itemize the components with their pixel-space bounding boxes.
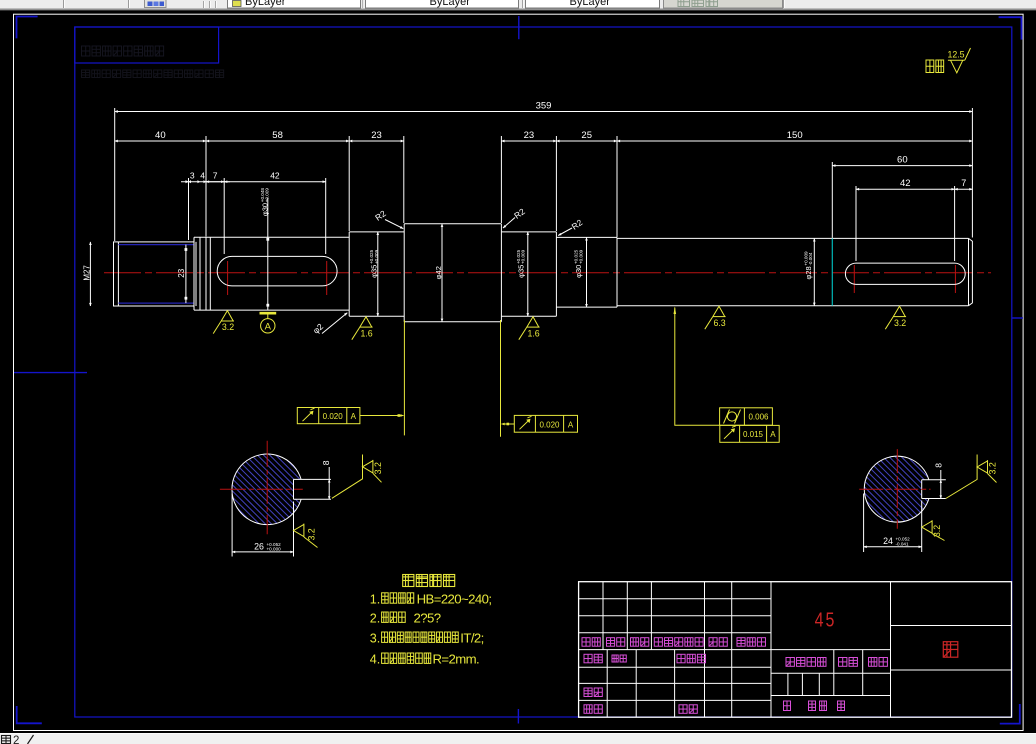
- svg-text:0.015: 0.015: [743, 430, 764, 439]
- dimension 60 (right end): [831, 162, 833, 238]
- svg-text:3.2: 3.2: [222, 322, 234, 332]
- svg-text:2: 2: [13, 735, 19, 744]
- section 2 circle: [864, 456, 929, 522]
- frame 1 leader and extension line: [360, 415, 404, 417]
- title block label biaozhunhua: [677, 654, 685, 663]
- section 1 circle: [232, 454, 301, 525]
- svg-text:7: 7: [213, 171, 218, 181]
- section 1 roughness 3.2 side: [332, 455, 363, 499]
- section 1 dim 26: [231, 494, 233, 557]
- frame centering tick left: [14, 372, 87, 374]
- svg-text:2?5?: 2?5?: [414, 611, 441, 626]
- svg-text:A: A: [568, 420, 574, 429]
- title block label pizhun: [679, 705, 687, 714]
- title block label genggai wenjianhao: [654, 638, 662, 647]
- chamfer phi2 callout: [311, 321, 326, 335]
- roughness 3.2 on phi30 left: [213, 311, 234, 334]
- shaft section phi28 long: [617, 237, 969, 239]
- svg-text:3.2: 3.2: [894, 318, 906, 328]
- svg-text:4: 4: [200, 171, 205, 181]
- svg-text:A: A: [351, 412, 357, 421]
- frame corner mark top-left: [17, 17, 38, 39]
- frame centering tick bottom: [517, 709, 519, 724]
- dimension phi30 keyseat: [267, 198, 269, 310]
- title block left table lines: [579, 598, 771, 600]
- svg-text:+0.009: +0.009: [265, 188, 270, 203]
- dimension 7 (left keyseat): [223, 178, 225, 254]
- shaft section phi30 right: [556, 236, 617, 238]
- shaft section phi35 left: [348, 232, 350, 316]
- toolbar combo plotstyle (disabled): [664, 0, 783, 8]
- title block label fenqu: [631, 638, 639, 647]
- frame centering tick top: [518, 16, 520, 39]
- fillet R2 right: [570, 217, 585, 232]
- title block middle section lines: [771, 649, 891, 651]
- svg-text:ByLayer: ByLayer: [245, 0, 286, 8]
- dimension 3 and 4 relief: [188, 178, 190, 240]
- shaft section phi35 right: [501, 231, 556, 233]
- svg-text:M27: M27: [82, 265, 91, 281]
- section 2 keyway width dim 8: [940, 470, 942, 499]
- title block designer name: [612, 655, 618, 662]
- shaft section phi30 keyseat: [194, 236, 349, 238]
- title block gong zhang di zhang: [784, 701, 791, 711]
- fillet R2 middle: [512, 206, 527, 221]
- svg-text:+0.009: +0.009: [374, 249, 379, 264]
- dimension phi35 left: [377, 232, 379, 316]
- tab label ju2: [2, 736, 11, 744]
- dimension 25: [616, 136, 618, 237]
- dimension phi42: [441, 224, 443, 322]
- title block label nianyueri: [737, 638, 745, 647]
- svg-text:150: 150: [787, 130, 803, 141]
- dimension 58: [205, 136, 207, 237]
- toolbar background: [0, 0, 1036, 9]
- dimension phi30 right: [586, 237, 588, 307]
- svg-text:3: 3: [190, 171, 195, 181]
- svg-text:IT/2;: IT/2;: [460, 631, 483, 646]
- title block right section lines: [891, 625, 1012, 627]
- svg-text:25: 25: [581, 130, 592, 141]
- section 2 roughness 3.2 bottom: [922, 520, 945, 540]
- material 45 (red): [815, 609, 837, 631]
- section 2 roughness 3.2 side: [946, 455, 977, 499]
- svg-text:R=2mm.: R=2mm.: [433, 652, 480, 667]
- toolbar separators: [63, 0, 65, 8]
- section 1 keyway width dim 8: [328, 467, 330, 499]
- title block label shenhe: [584, 688, 592, 697]
- svg-text:A: A: [770, 430, 776, 439]
- svg-text:42: 42: [900, 178, 911, 189]
- dimension 359 overall: [114, 108, 116, 241]
- dimension 7 (right end): [955, 188, 973, 190]
- svg-text:3.2: 3.2: [307, 528, 317, 540]
- svg-text:40: 40: [155, 130, 166, 141]
- part name zhou (red): [943, 642, 958, 658]
- keyway 1 arc centerlines: [227, 261, 229, 295]
- frame centering tick right: [1012, 317, 1023, 319]
- svg-text:6.3: 6.3: [713, 318, 725, 328]
- tolerance frame 3 cylindricity 0.006: [720, 408, 773, 425]
- svg-text:12.5: 12.5: [947, 50, 964, 60]
- svg-text:0.020: 0.020: [539, 420, 560, 429]
- svg-text:3.2: 3.2: [373, 462, 383, 474]
- svg-text:φ35: φ35: [370, 265, 379, 278]
- svg-text:φ30: φ30: [574, 265, 583, 278]
- svg-text:23: 23: [371, 130, 382, 141]
- shaft relief groove: [193, 237, 195, 310]
- fillet R2 left: [373, 208, 388, 223]
- title block outer border: [579, 582, 1012, 718]
- dimension phi35 right: [527, 232, 529, 316]
- svg-text:359: 359: [536, 100, 552, 111]
- dimension 23 (seg5): [500, 136, 502, 223]
- section 1 centerlines: [220, 488, 303, 490]
- svg-text:ByLayer: ByLayer: [570, 0, 611, 8]
- svg-text:8: 8: [934, 463, 944, 468]
- svg-text:23: 23: [177, 268, 186, 277]
- svg-text:-0.004: -0.004: [808, 252, 813, 265]
- dimension 42 (right keyway): [855, 186, 857, 261]
- keyway slot 2: [845, 263, 965, 284]
- svg-text:φ35: φ35: [516, 265, 525, 278]
- svg-text:3.2: 3.2: [987, 462, 997, 474]
- section 2 hatch: [855, 325, 940, 660]
- datum A symbol: [260, 312, 277, 315]
- svg-text:23: 23: [524, 130, 535, 141]
- tolerance frame 4 circular runout 0.015 A: [720, 425, 779, 442]
- faint text row under title box: [82, 70, 90, 78]
- toolbar combo linetype: [366, 0, 519, 8]
- svg-text:R2: R2: [570, 217, 585, 232]
- frame corner mark bottom-right: [1000, 704, 1020, 724]
- title block label gongyi: [584, 705, 592, 714]
- svg-text:1.6: 1.6: [527, 328, 539, 338]
- svg-text:45: 45: [815, 609, 837, 631]
- svg-text:58: 58: [272, 130, 283, 141]
- roughness 3.2 on phi28 keyseat: [885, 306, 906, 329]
- svg-text:3.2: 3.2: [932, 525, 942, 537]
- faint text row in title box: [82, 46, 90, 56]
- svg-text:0.020: 0.020: [323, 412, 344, 421]
- svg-text:+0.000: +0.000: [267, 547, 282, 552]
- shaft section M27 thread end: [114, 242, 195, 306]
- keyway 2 arc centerlines: [853, 265, 855, 293]
- roughness 1.6 on phi35 left: [352, 317, 373, 340]
- svg-text:4.: 4.: [370, 653, 381, 667]
- title block label chushu: [607, 638, 615, 647]
- toolbar combo lineweight: [526, 0, 660, 8]
- svg-text:60: 60: [897, 154, 908, 165]
- svg-text:HB=220~240;: HB=220~240;: [417, 592, 492, 607]
- svg-text:2.: 2.: [370, 612, 381, 626]
- shaft section phi42: [403, 224, 405, 322]
- svg-text:A: A: [265, 321, 272, 332]
- svg-text:+0.009: +0.009: [578, 249, 583, 264]
- dimension 23 thread minor: [185, 245, 187, 304]
- dimension 23 (seg3): [348, 136, 350, 231]
- svg-text:26: 26: [254, 541, 264, 551]
- tech requirements title: [403, 575, 414, 587]
- title block label jieduan biaoji: [786, 658, 794, 667]
- keyway slot 1: [217, 256, 337, 286]
- svg-text:φ28: φ28: [804, 266, 813, 279]
- toolbar combo color: [228, 0, 361, 8]
- frame 2 leader and extension line: [502, 423, 515, 425]
- section 1 keyway notch: [293, 479, 295, 499]
- shaft centerline: [104, 272, 991, 274]
- dimension M27: [89, 242, 91, 306]
- toolbar color button: [145, 0, 167, 8]
- title block label bili: [869, 658, 877, 667]
- title block label qianming: [709, 638, 717, 647]
- section 1 hatch: [220, 320, 315, 665]
- section 1 roughness 3.2 bottom: [294, 524, 318, 548]
- dimension 42 (left keyway): [325, 178, 327, 254]
- tolerance frame 1 circular runout 0.020 A: [297, 408, 360, 424]
- dimension phi28: [813, 238, 815, 305]
- dimension 150: [617, 140, 972, 142]
- svg-text:φ30: φ30: [260, 203, 269, 216]
- general roughness note qiyu text: [926, 60, 934, 73]
- title block label biaoji: [582, 638, 590, 647]
- tolerance frame 2 circular runout 0.020 A: [514, 415, 577, 432]
- frame corner mark bottom-left: [17, 706, 42, 723]
- roughness 1.6 on phi35 right: [519, 317, 540, 340]
- title block label sheji: [584, 654, 592, 663]
- section 2 keyway notch: [921, 480, 923, 499]
- svg-text:φ2: φ2: [311, 321, 326, 335]
- thread minor diameter lines (navy): [118, 244, 194, 246]
- tab strip background: [0, 734, 1036, 744]
- svg-text:1.6: 1.6: [360, 328, 372, 338]
- svg-text:-0.041: -0.041: [896, 542, 909, 547]
- svg-text:8: 8: [321, 460, 331, 465]
- svg-text:φ42: φ42: [434, 266, 443, 279]
- roughness 6.3 on phi28: [705, 306, 726, 329]
- svg-text:0.006: 0.006: [748, 413, 769, 422]
- section 2 dim 24: [863, 494, 865, 553]
- svg-text:R2: R2: [373, 208, 388, 223]
- frames 3-4 leader: [675, 308, 720, 426]
- svg-text:1.: 1.: [370, 593, 381, 607]
- svg-text:24: 24: [883, 536, 893, 546]
- shaft right end with chamfer: [969, 238, 973, 305]
- frame corner mark top-right: [999, 17, 1022, 39]
- frame title box top-left (blue): [75, 27, 219, 63]
- svg-text:42: 42: [270, 171, 280, 181]
- title block label zhongliang: [839, 658, 847, 667]
- svg-text:7: 7: [961, 178, 966, 188]
- svg-text:+0.009: +0.009: [521, 249, 526, 264]
- svg-text:ByLayer: ByLayer: [430, 0, 471, 8]
- section 2 centerlines: [859, 488, 930, 490]
- keyway region boundary (cyan): [831, 238, 833, 305]
- dimension 40: [115, 140, 206, 142]
- svg-text:3.: 3.: [370, 632, 381, 646]
